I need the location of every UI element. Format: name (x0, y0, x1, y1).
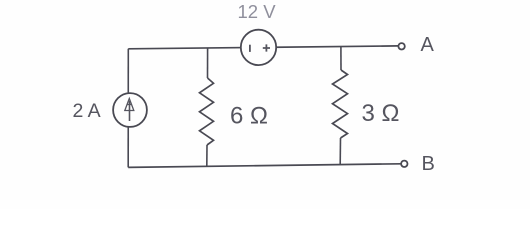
svg-text:2 A: 2 A (73, 100, 101, 122)
current source I1 arrow shaft (129, 101, 131, 121)
wire 6-ohm branch top stub (207, 48, 209, 78)
wire top (node A rail) (128, 46, 398, 49)
terminal node B circle (401, 161, 407, 167)
svg-text:A: A (421, 34, 435, 56)
wire bottom (node B rail) (128, 164, 401, 168)
voltage source V1 plus mark (263, 44, 270, 51)
svg-text:3 Ω: 3 Ω (362, 100, 400, 127)
svg-text:12 V: 12 V (238, 1, 277, 22)
wire 3-ohm branch top stub (340, 47, 342, 71)
svg-text:B: B (422, 153, 435, 175)
wire 3-ohm branch bottom stub (339, 138, 341, 165)
voltage source V1 minus mark (249, 45, 251, 52)
current source I1 circle (113, 93, 147, 127)
resistor R1 6 ohm (zigzag) (200, 78, 214, 145)
voltage source V1 circle (241, 30, 276, 65)
wire 6-ohm branch bottom stub (206, 145, 208, 166)
terminal node A circle (398, 43, 404, 49)
svg-text:6 Ω: 6 Ω (230, 103, 268, 130)
resistor R2 3 ohm (zigzag) (333, 70, 348, 138)
current source I1 arrow head (125, 99, 134, 111)
wire left branch (through current source) (127, 49, 129, 168)
